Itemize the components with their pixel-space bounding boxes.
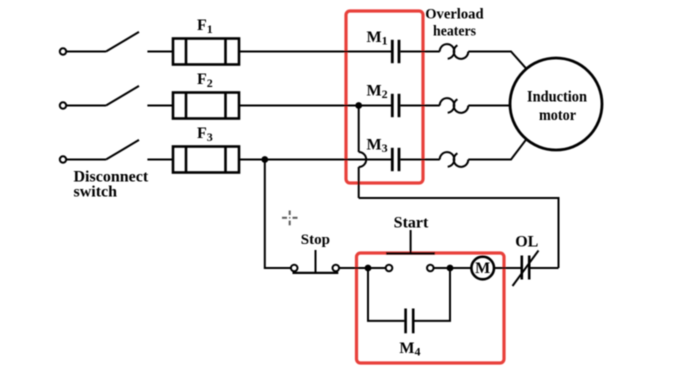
contact M3 <box>392 148 399 171</box>
disconnect switch pole 3 terminal <box>60 156 66 162</box>
wire contact M2 to heater 2 <box>400 105 439 107</box>
wire from hop up to line 2 junction <box>358 106 360 153</box>
induction motor <box>510 58 602 150</box>
node junction on line 3 (control tap) <box>261 156 268 163</box>
wire heater 3 to motor <box>468 139 526 159</box>
label M3 <box>367 137 388 156</box>
wire control rail left (from line 3 junction down to stop) <box>265 160 291 269</box>
wire OL to right rail <box>531 267 559 269</box>
wire fuse F2 to contact M2 <box>239 105 392 107</box>
label Disconnect switch <box>74 169 149 201</box>
label OL <box>515 233 538 250</box>
wire hop over line 3 <box>359 152 367 167</box>
wire branch from contact M4 up-right <box>414 268 450 321</box>
label M2 <box>367 83 388 102</box>
coil M (motor starter coil) <box>471 257 494 280</box>
wire branch down-left to contact M4 <box>368 268 404 321</box>
svg-text:switch: switch <box>74 184 118 201</box>
OL contact (overload, NC) <box>513 251 539 287</box>
crosshair cursor artifact <box>282 211 298 226</box>
wire fuse F1 to contact M1 <box>239 51 392 53</box>
wire switch3 to fuse F3 <box>147 159 173 161</box>
fuse F3 <box>173 147 239 173</box>
disconnect switch pole 1 blade <box>66 32 139 52</box>
stop pushbutton (NC) <box>291 250 339 273</box>
disconnect switch pole 2 blade <box>66 86 139 106</box>
node junction left of start contact <box>365 265 372 272</box>
contact M1 <box>392 40 399 63</box>
svg-text:motor: motor <box>539 107 576 124</box>
wire switch1 to fuse F1 <box>147 51 173 53</box>
wire heater 2 to motor <box>468 105 510 107</box>
wire stop to start <box>339 267 368 269</box>
overload heater 2 <box>440 98 469 113</box>
svg-text:heaters: heaters <box>433 24 476 40</box>
svg-text:Overload: Overload <box>425 6 484 22</box>
label F2 <box>197 71 213 90</box>
label Overload heaters <box>425 6 484 39</box>
red highlight box around seal-in contact M4 <box>357 253 505 363</box>
fuse F1 <box>173 39 239 65</box>
label Start <box>394 215 429 232</box>
wire right rail up and across to line 2 tap <box>359 167 559 268</box>
disconnect switch pole 1 terminal <box>60 48 66 54</box>
fuse F2 <box>173 93 239 119</box>
overload heater 1 <box>440 44 469 59</box>
wire coil M to OL contact <box>494 267 521 269</box>
wire contact M3 to heater 3 <box>400 159 439 161</box>
svg-text:M: M <box>475 260 490 277</box>
contact M4 (seal-in) <box>406 309 414 334</box>
node junction right of start contact <box>447 265 454 272</box>
label M4 <box>399 340 420 359</box>
wire switch2 to fuse F2 <box>147 105 173 107</box>
start pushbutton (NO) <box>368 230 450 271</box>
wire start to coil M <box>450 267 471 269</box>
label F3 <box>197 125 213 144</box>
red highlight box around contacts M1 M2 M3 <box>346 11 423 183</box>
wire heater 1 to motor <box>468 52 526 69</box>
disconnect switch pole 3 blade <box>66 140 139 160</box>
label M1 <box>367 29 388 48</box>
disconnect switch pole 2 terminal <box>60 102 66 108</box>
label F1 <box>197 17 213 36</box>
overload heater 3 <box>440 152 469 167</box>
svg-text:Start: Start <box>394 215 429 232</box>
wire fuse F3 to contact M3 <box>239 159 392 161</box>
svg-text:OL: OL <box>515 233 538 250</box>
node junction on line 2 (control tap) <box>355 102 362 109</box>
svg-text:Induction: Induction <box>527 89 587 106</box>
wire contact M1 to heater 1 <box>400 51 439 53</box>
label Stop <box>301 232 330 248</box>
contact M2 <box>392 94 399 117</box>
svg-text:Stop: Stop <box>301 232 330 248</box>
